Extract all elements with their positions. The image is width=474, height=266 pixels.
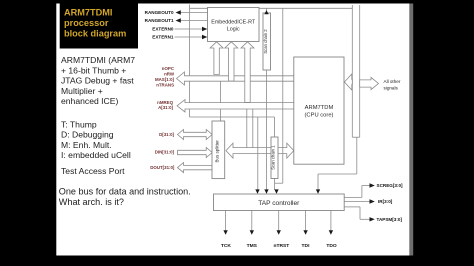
svg-text:DOUT[31:0]: DOUT[31:0] — [150, 165, 175, 170]
svg-text:Test Access Port: Test Access Port — [61, 166, 125, 176]
svg-text:RANGEOUT1: RANGEOUT1 — [145, 18, 174, 23]
svg-text:nTRANS: nTRANS — [156, 82, 174, 87]
svg-text:ARM7TDMI: ARM7TDMI — [64, 8, 113, 18]
svg-text:nRW: nRW — [164, 71, 175, 76]
svg-text:Logic: Logic — [227, 26, 240, 32]
svg-text:EXTERN0: EXTERN0 — [152, 27, 174, 32]
svg-text:TCK: TCK — [221, 243, 232, 249]
svg-text:One bus for data and instructi: One bus for data and instruction. — [59, 187, 191, 197]
svg-text:block diagram: block diagram — [64, 28, 126, 38]
svg-text:EmbeddedICE-RT: EmbeddedICE-RT — [211, 19, 256, 25]
svg-text:nTRST: nTRST — [274, 243, 290, 249]
svg-text:TDO: TDO — [326, 243, 337, 249]
svg-text:Multiplier +: Multiplier + — [61, 86, 103, 96]
svg-text:EXTERN1: EXTERN1 — [152, 35, 174, 40]
svg-text:D: Debugging: D: Debugging — [61, 130, 114, 140]
svg-text:Bus splitter: Bus splitter — [214, 140, 219, 163]
svg-text:enhanced ICE): enhanced ICE) — [61, 96, 118, 106]
svg-text:IR[3:0]: IR[3:0] — [378, 199, 393, 204]
svg-text:M: Enh. Mult.: M: Enh. Mult. — [61, 140, 112, 150]
svg-text:Scan chain 2: Scan chain 2 — [263, 29, 268, 54]
svg-text:TMS: TMS — [247, 243, 258, 249]
svg-text:JTAG Debug + fast: JTAG Debug + fast — [61, 76, 134, 86]
svg-text:A[31:0]: A[31:0] — [158, 105, 173, 110]
svg-text:(CPU core): (CPU core) — [305, 113, 334, 119]
svg-text:TAPSM[3:0]: TAPSM[3:0] — [377, 217, 403, 222]
svg-text:D[31:0]: D[31:0] — [159, 132, 174, 137]
svg-text:All other: All other — [384, 79, 401, 84]
svg-text:T: Thump: T: Thump — [61, 120, 97, 130]
svg-text:What arch. is it?: What arch. is it? — [59, 197, 124, 207]
svg-text:nOPC: nOPC — [162, 66, 175, 71]
svg-text:SCREG[3:0]: SCREG[3:0] — [377, 183, 404, 188]
svg-text:TAP controller: TAP controller — [258, 200, 300, 207]
svg-text:+ 16-bit Thumb +: + 16-bit Thumb + — [61, 65, 126, 75]
svg-text:Scan chain 1: Scan chain 1 — [271, 145, 276, 170]
svg-text:DIN[31:0]: DIN[31:0] — [155, 149, 175, 154]
svg-text:signals: signals — [384, 85, 399, 90]
svg-text:MAS[1:0]: MAS[1:0] — [155, 77, 175, 82]
svg-text:ARM7TDM: ARM7TDM — [305, 105, 334, 111]
svg-text:TDI: TDI — [302, 243, 311, 249]
svg-text:processor: processor — [64, 18, 109, 28]
svg-text:I: embedded uCell: I: embedded uCell — [61, 150, 131, 160]
svg-text:RANGEOUT0: RANGEOUT0 — [145, 10, 174, 15]
svg-text:ARM7TDMI (ARM7: ARM7TDMI (ARM7 — [61, 55, 135, 65]
